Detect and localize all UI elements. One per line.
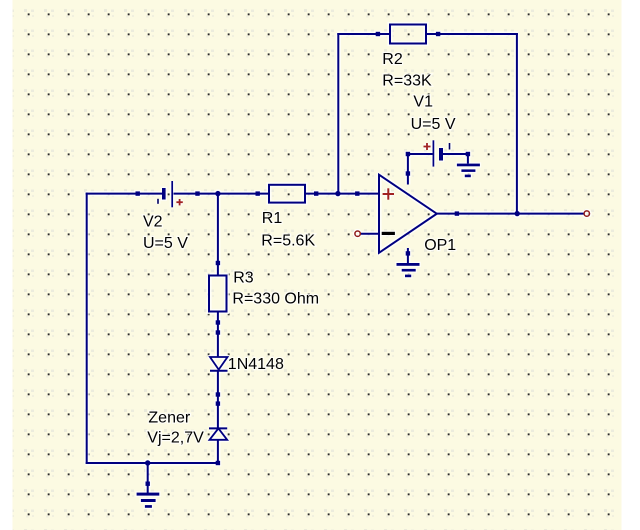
junction ground branch junction bbox=[145, 460, 150, 465]
ground below op-amp bbox=[397, 263, 420, 266]
wire R3 to diode D1 bbox=[217, 312, 219, 358]
resistor R1 body bbox=[269, 185, 305, 203]
wire R2 left lead bbox=[337, 33, 390, 35]
wire V1 to op-amp supply bbox=[407, 153, 409, 185]
wire left rail bbox=[86, 193, 88, 464]
node op-amp output pin bbox=[455, 211, 459, 215]
left window border bbox=[0, 0, 13, 530]
svg-text:Zener: Zener bbox=[148, 410, 190, 427]
node op-amp supply node bbox=[406, 171, 410, 175]
wire V1 negative lead bbox=[443, 153, 469, 155]
wire V2 to R1 segment bbox=[174, 193, 270, 195]
svg-text:OP1: OP1 bbox=[424, 237, 456, 254]
op-amp OP1 triangle bbox=[379, 175, 437, 253]
diode D1 cathode bar bbox=[210, 370, 228, 372]
wire V2 left lead bbox=[86, 193, 163, 195]
diode D1 1N4148 triangle bbox=[210, 357, 228, 370]
battery V2 positive plate bbox=[171, 181, 173, 207]
node R3 pin 1 bbox=[216, 261, 220, 265]
wire left feedback rail bbox=[337, 33, 339, 194]
node R3 pin 2 bbox=[216, 320, 220, 324]
battery V1 positive plate bbox=[432, 140, 434, 166]
zener diode cathode bar bbox=[209, 427, 227, 429]
junction feedback / input junction bbox=[335, 191, 340, 196]
node V2 pin plus bbox=[195, 191, 199, 195]
junction output feedback junction bbox=[515, 211, 520, 216]
op-amp OP1 minus input mark bbox=[382, 232, 395, 235]
node zener pin cathode bbox=[216, 401, 220, 405]
battery V1 negative plate bbox=[439, 148, 443, 161]
terminal output (open) bbox=[584, 211, 589, 216]
node R2 pin 1 bbox=[376, 32, 380, 36]
svg-text:Vj=2,7V: Vj=2,7V bbox=[147, 430, 204, 447]
zener diode triangle bbox=[210, 428, 228, 439]
node R2 pin 2 bbox=[436, 32, 440, 36]
node R1 pin 1 bbox=[256, 191, 260, 195]
svg-text:R2: R2 bbox=[382, 51, 403, 68]
svg-text:1N4148: 1N4148 bbox=[228, 356, 284, 373]
svg-text:V2: V2 bbox=[143, 214, 163, 231]
ground bottom rail bbox=[137, 493, 160, 496]
battery V2 plus sign bbox=[176, 201, 182, 203]
svg-text:U=5 V: U=5 V bbox=[411, 116, 456, 133]
wire V1 ground stub bbox=[467, 153, 469, 164]
resistor R2 body bbox=[390, 25, 426, 44]
svg-text:R=330 Ohm: R=330 Ohm bbox=[232, 291, 319, 308]
node op-amp noninverting pin bbox=[355, 191, 359, 195]
node op-amp ground pin bbox=[406, 251, 410, 255]
right window border bbox=[622, 0, 640, 530]
battery V2 negative plate bbox=[162, 188, 166, 200]
ground for V1 bbox=[457, 164, 480, 167]
node zener pin anode bbox=[216, 461, 220, 465]
wire V1 positive lead bbox=[407, 153, 433, 155]
wire right feedback rail bbox=[516, 33, 518, 214]
battery V2 minus tick bbox=[157, 199, 159, 204]
battery V1 minus tick bbox=[449, 143, 451, 150]
node V1 pin plus bbox=[406, 152, 410, 156]
node V1 pin minus bbox=[466, 152, 470, 156]
wire D1 to zener bbox=[217, 371, 219, 429]
wire R3 branch from node bbox=[217, 194, 219, 276]
svg-text:R3: R3 bbox=[233, 270, 254, 287]
wire op-amp output bbox=[437, 213, 584, 215]
wire ground stub bottom bbox=[147, 463, 149, 494]
junction R3 branch junction bbox=[215, 191, 220, 196]
svg-text:R1: R1 bbox=[262, 210, 283, 227]
wire zener to bottom return bbox=[217, 440, 219, 463]
wire bottom return bbox=[86, 462, 219, 464]
node R1 pin 2 bbox=[314, 191, 318, 195]
wire R1 to op-amp noninverting input bbox=[305, 193, 379, 195]
node D1 pin anode bbox=[216, 330, 220, 334]
wire R2 right lead bbox=[426, 33, 518, 35]
svg-text:U=5 V: U=5 V bbox=[143, 235, 188, 252]
node V2 pin minus bbox=[136, 191, 140, 195]
resistor R3 body bbox=[209, 276, 227, 312]
op-amp OP1 plus input mark bbox=[383, 193, 394, 195]
wire op-amp ground stub bbox=[407, 248, 409, 264]
terminal inverting input (open) bbox=[355, 231, 360, 236]
svg-text:R=33K: R=33K bbox=[382, 73, 432, 90]
node ground pin bottom bbox=[146, 482, 150, 486]
svg-text:R=5.6K: R=5.6K bbox=[261, 233, 315, 250]
wire op-amp inverting input lead bbox=[361, 233, 380, 235]
battery V1 plus sign bbox=[424, 146, 431, 148]
node D1 pin cathode bbox=[216, 392, 220, 396]
svg-text:V1: V1 bbox=[413, 93, 433, 110]
